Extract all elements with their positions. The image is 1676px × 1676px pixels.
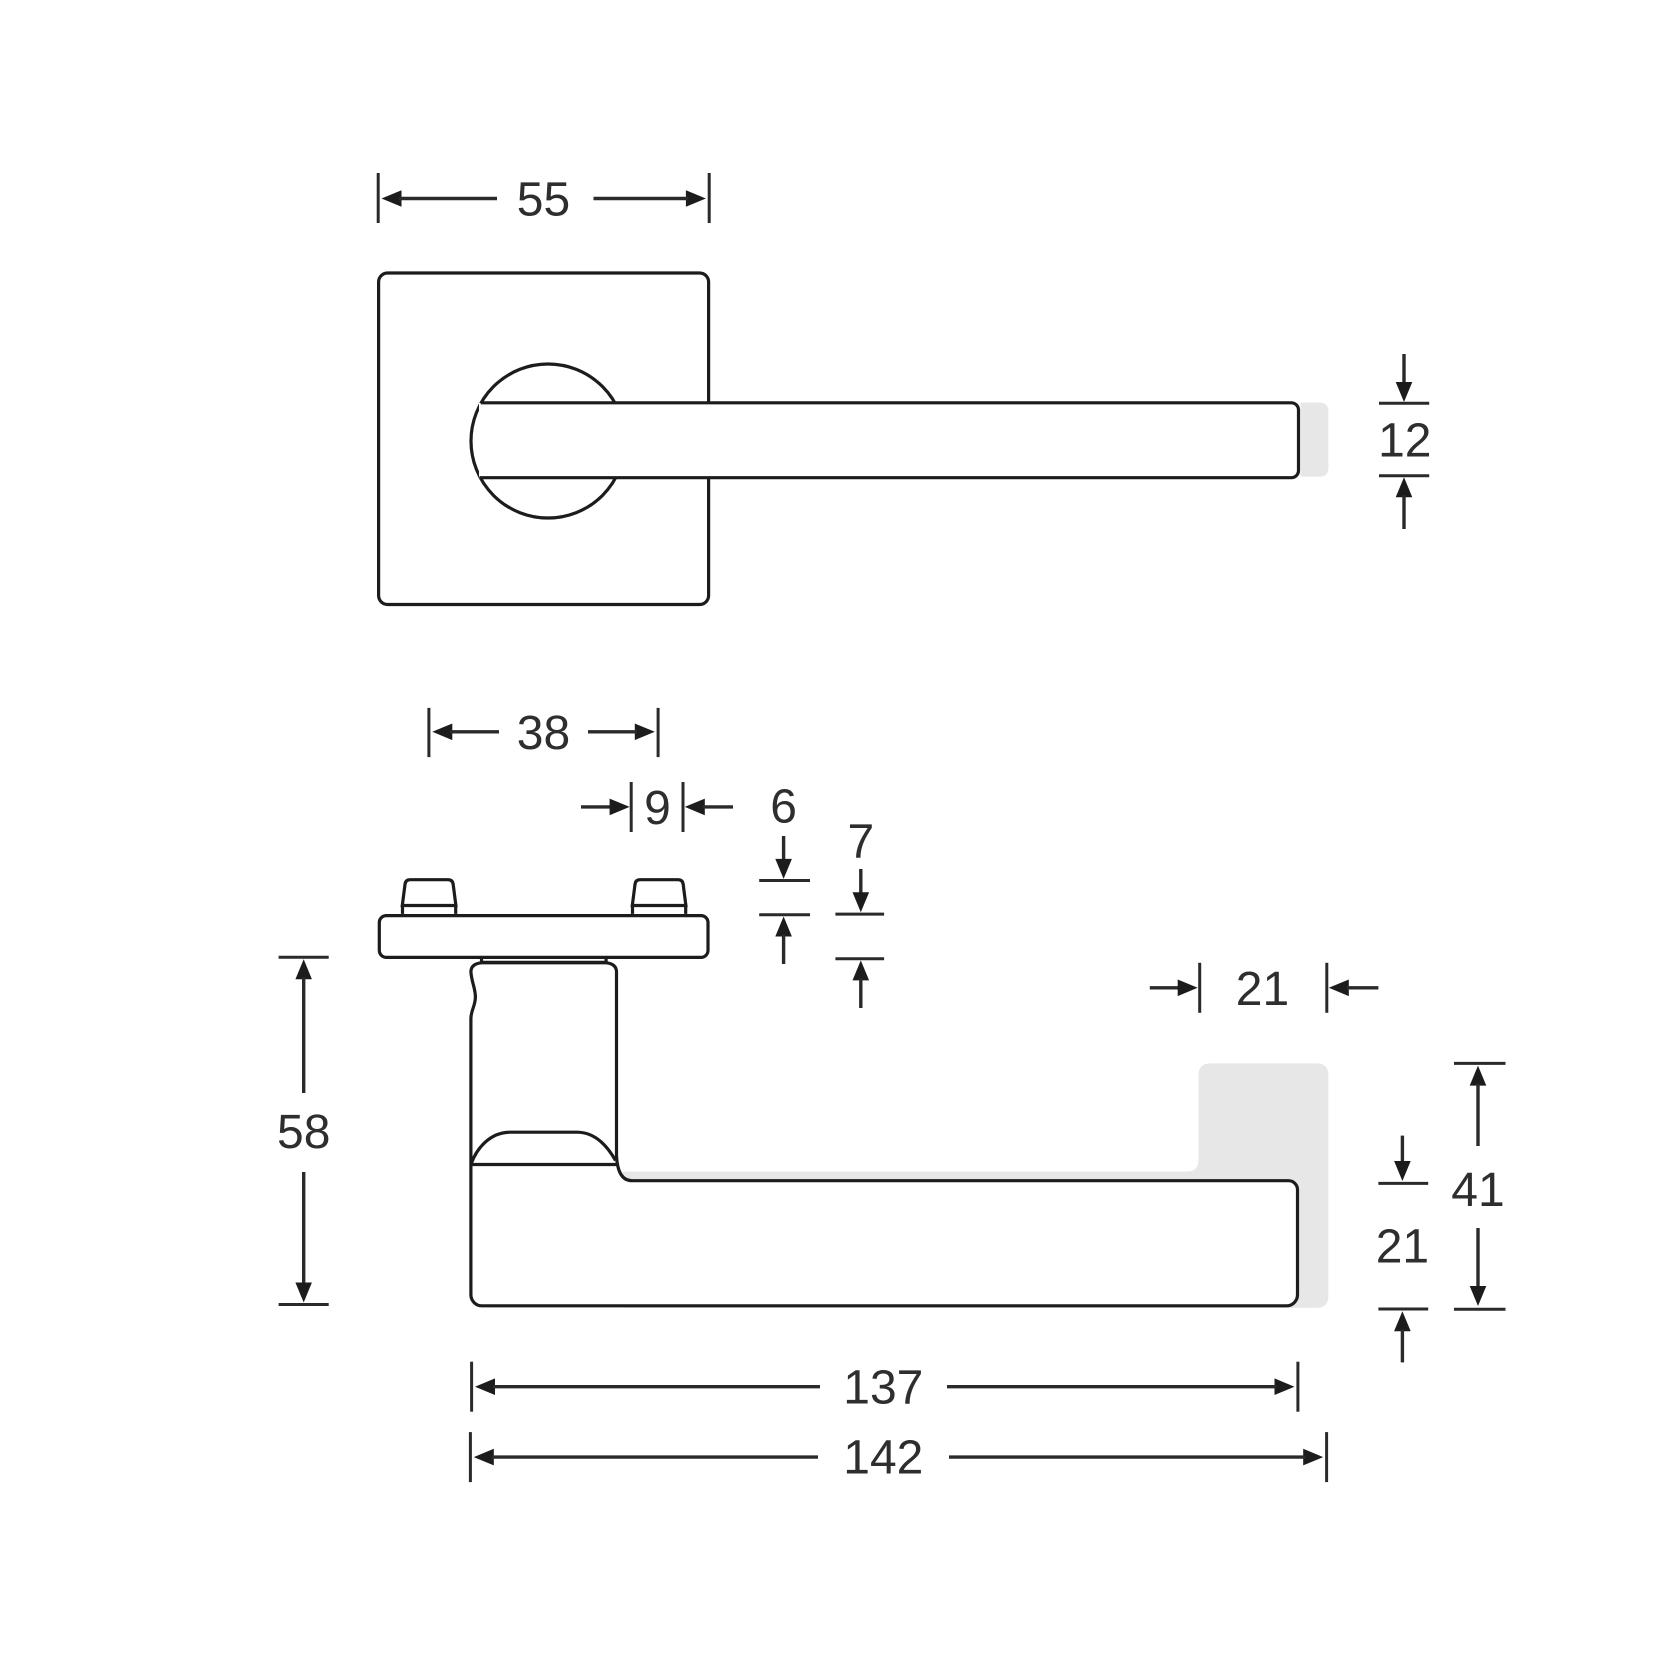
svg-text:9: 9 — [644, 782, 671, 835]
svg-text:55: 55 — [517, 174, 570, 227]
dimension 21 (top right): right tick — [1325, 963, 1328, 1013]
svg-text:7: 7 — [847, 816, 874, 869]
dimension 38: right arrow + line — [588, 724, 655, 741]
svg-text:142: 142 — [843, 1432, 923, 1485]
dimension 6: down arrow — [775, 836, 792, 879]
dimension 41: up arrow + line — [1470, 1066, 1487, 1146]
dimension 38: right tick — [657, 708, 660, 757]
dimension 21 (right): up arrow — [1394, 1311, 1411, 1362]
dimension 55: right extension tick — [708, 173, 711, 223]
dimension 55: left extension tick — [377, 173, 380, 223]
dimension 7: down arrow — [853, 869, 870, 912]
dimension 55: right arrow + line — [594, 190, 706, 207]
dimension 137: left tick — [470, 1362, 473, 1412]
right fixing screw head — [632, 880, 686, 914]
dimension 6: upper tick — [759, 879, 810, 882]
dimension 41: lower tick — [1454, 1308, 1506, 1311]
dimension 7: up arrow — [853, 960, 870, 1008]
svg-text:38: 38 — [517, 707, 570, 760]
dimension 21 (right): down arrow — [1394, 1136, 1411, 1181]
lever handle body: neck + grip outline (side view) — [471, 963, 1298, 1306]
dimension 6: lower tick — [759, 913, 810, 916]
dimension 9: outside left arrow — [581, 799, 630, 816]
dimension 137: right tick — [1296, 1362, 1299, 1412]
left fixing screw head — [402, 880, 456, 914]
svg-text:41: 41 — [1451, 1164, 1504, 1217]
neck-to-grip dome transition — [471, 1132, 616, 1164]
svg-text:58: 58 — [277, 1106, 330, 1159]
svg-text:6: 6 — [770, 780, 797, 833]
dimension 137: right arrow + line — [947, 1378, 1295, 1395]
lever bar (top view) outline — [479, 403, 1298, 478]
dimension 142: right arrow + line — [949, 1449, 1323, 1466]
rosette circle (top view) — [471, 364, 625, 518]
dimension 142: right tick — [1325, 1432, 1328, 1482]
dimension 55: left arrow + line — [382, 190, 498, 207]
dimension 21 (top right): right arrow — [1329, 980, 1379, 997]
dimension 58: down arrow + line — [295, 1172, 312, 1303]
dimension 7: lower tick — [835, 957, 884, 960]
dimension 58: up arrow + line — [295, 959, 312, 1093]
dimension 6: up arrow — [775, 917, 792, 965]
dimension 7: upper tick — [835, 913, 884, 916]
dimension 142: left arrow + line — [474, 1449, 818, 1466]
svg-text:21: 21 — [1236, 963, 1289, 1016]
neck collar line under plate — [482, 958, 607, 963]
svg-text:137: 137 — [843, 1361, 923, 1414]
dimension 58: lower tick — [279, 1303, 329, 1306]
grip top edge line at bend — [471, 1163, 617, 1166]
dimension 142: left tick — [469, 1432, 472, 1482]
dimension 58: upper tick — [279, 956, 329, 959]
dimension 9: outside right arrow — [685, 799, 733, 816]
dimension 21 (right): lower tick — [1378, 1308, 1428, 1311]
dimension 21 (top right): left tick — [1198, 963, 1201, 1013]
dimension 21 (right): upper tick — [1378, 1182, 1428, 1185]
grey variant silhouette (side view) — [620, 1063, 1328, 1308]
dimension 12: lower tick — [1379, 474, 1429, 477]
grey variant end block (top view) — [1301, 403, 1329, 477]
dimension 38: left arrow + line — [432, 724, 499, 741]
dimension 41: down arrow + line — [1470, 1228, 1487, 1306]
svg-text:12: 12 — [1378, 415, 1431, 468]
dimension 9: left tick — [630, 782, 633, 832]
svg-text:21: 21 — [1376, 1221, 1429, 1274]
square rosette (top view) — [379, 273, 709, 605]
dimension 21 (top right): left arrow — [1150, 980, 1198, 997]
dimension 38: left tick — [427, 708, 430, 757]
dimension 12: upper tick — [1379, 402, 1429, 405]
dimension 12: upper arrow — [1396, 354, 1413, 402]
dimension 137: left arrow + line — [475, 1378, 820, 1395]
dimension 41: upper tick — [1454, 1062, 1506, 1065]
rosette plate (side view) — [379, 916, 708, 958]
dimension 12: lower arrow — [1396, 477, 1413, 529]
lever bar (top view) white fill — [479, 403, 1298, 478]
dimension 9: right tick — [682, 782, 685, 832]
